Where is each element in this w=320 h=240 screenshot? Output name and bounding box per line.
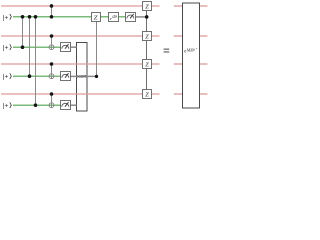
wire a1 (ancilla 1, green) (13, 16, 126, 18)
node control q4 (50, 92, 54, 96)
wire classical control chain to Z corrections (146, 11, 148, 32)
node CZ q1-a1 (50, 4, 54, 8)
XOR classical-processing box (77, 43, 88, 112)
equals sign (164, 49, 170, 53)
wire q2 (data qubit 2, red) (1, 35, 160, 37)
svg-text:|+: |+ (3, 45, 9, 52)
node control q2 (50, 34, 54, 38)
svg-text:iZθ: iZθ (112, 15, 117, 19)
node measurement result m1 (145, 15, 149, 19)
wire CZ q1-a1 (51, 6, 53, 17)
wire a2 (ancilla 2, green) (13, 46, 60, 48)
node control q3 (50, 62, 54, 66)
wire CZ a1-a4 (35, 17, 37, 105)
svg-text:|+: |+ (3, 103, 9, 110)
label ket-plus a3 (3, 73, 12, 80)
svg-text:|+: |+ (3, 14, 9, 21)
svg-text:Z: Z (145, 34, 149, 41)
svg-text:XOR: XOR (77, 74, 87, 79)
wire CNOT q3-a3 (51, 64, 53, 79)
node control a1-a2 (21, 15, 25, 19)
gate Z correction on q3 (143, 60, 152, 69)
label ket-plus a2 (3, 44, 12, 51)
wire CZ a1-a2 (22, 17, 24, 47)
gate Z on a1 (classically controlled) (92, 13, 101, 22)
wire CNOT q4-a4 (51, 94, 53, 108)
classical wire meter M2 to XOR box (70, 46, 76, 48)
gate e^(iZt) rotation on a1 (109, 13, 119, 22)
svg-text:Z: Z (145, 4, 149, 11)
classical wire meter M4 to XOR box (70, 104, 76, 106)
wire q3 (data qubit 3, red) (1, 63, 160, 65)
node control a1-a3 (28, 15, 32, 19)
classical wire from meter M1 to dot (136, 16, 148, 18)
svg-text:Z: Z (145, 62, 149, 69)
label ket-plus a4 (3, 102, 12, 109)
svg-text:Z: Z (94, 14, 98, 21)
gate Z correction on q2 (143, 32, 152, 41)
node XOR output corner (95, 75, 98, 78)
wire a3 (ancilla 3, green) (13, 75, 60, 77)
measurement M1 on a1 (126, 13, 136, 22)
gate Z correction on q1 (143, 2, 152, 11)
classical wire meter M3 through XOR box to corner dot (71, 75, 97, 77)
CNOT target a3 (49, 74, 54, 79)
wire q4 (data qubit 4, red) (1, 93, 160, 95)
svg-text:|+: |+ (3, 74, 9, 81)
wire XOR output up to Z gate on a1 (96, 22, 98, 77)
svg-text:MZθ: MZθ (186, 47, 195, 52)
gate Z correction on q4 (143, 90, 152, 99)
stub wires into unitary box (174, 5, 183, 7)
svg-text:+: + (196, 47, 198, 51)
label ket-plus a1 (3, 14, 12, 21)
CNOT target a4 (49, 103, 54, 108)
measurement M4 on a4 (61, 101, 71, 110)
wire CNOT q2-a2 (51, 36, 53, 50)
wire a4 (ancilla 4, green) (13, 104, 60, 106)
wire CZ a1-a3 (29, 17, 31, 76)
CNOT target a2 (49, 45, 54, 50)
measurement M2 on a2 (61, 43, 71, 52)
svg-text:Z: Z (145, 92, 149, 99)
unitary box e^(MZtheta) (183, 3, 200, 108)
node control a1-a4 (34, 15, 38, 19)
measurement M3 on a3 (61, 72, 71, 81)
wire q1 (data qubit 1, red) (1, 5, 160, 7)
